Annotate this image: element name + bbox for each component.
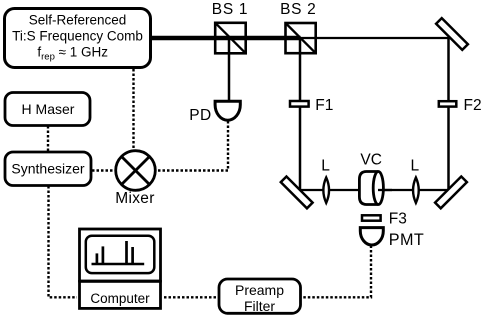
mirror M3 bottom-right: [435, 176, 467, 208]
svg-text:Mixer: Mixer: [115, 190, 154, 207]
computer monitor: [80, 229, 161, 281]
beam splitter BS1: [215, 23, 246, 54]
vapor cell VC body: [359, 172, 378, 205]
photomultiplier PMT: [360, 228, 383, 245]
wire: beam from BS1 down to PD: [228, 38, 231, 102]
wire: thick beam from comb to BS2 center: [150, 36, 301, 41]
wire: beam through VC window: [378, 189, 392, 191]
dotted: comb to mixer: [132, 69, 134, 150]
svg-text:Self-Referenced: Self-Referenced: [29, 13, 127, 28]
dotted: synthesizer to computer: [49, 186, 78, 297]
box: Preamp Filter: [219, 279, 301, 314]
mixer circle with X: [116, 151, 156, 191]
svg-text:BS 1: BS 1: [212, 1, 248, 18]
svg-text:F3: F3: [389, 210, 407, 227]
wire: horizontal beam VC to M3: [378, 189, 451, 191]
lens L right: [413, 178, 419, 203]
dotted: synthesizer to mixer: [92, 169, 115, 171]
wire: beam from BS2 down through F1 to mirror M2: [299, 38, 302, 193]
spectrum peak 2: [102, 246, 105, 264]
dotted: computer to preamp filter: [164, 296, 217, 298]
svg-text:Filter: Filter: [244, 298, 275, 314]
dotted: H maser to synthesizer: [47, 126, 49, 151]
wire: beam from top-right mirror down through F2 to mirror M3: [447, 38, 450, 195]
beam splitter BS2: [286, 23, 316, 53]
svg-text:L: L: [410, 158, 419, 175]
svg-text:L: L: [321, 158, 330, 175]
mirror M2 bottom-left: [281, 176, 313, 208]
filter F3: [362, 215, 381, 220]
vapor cell VC right window: [373, 172, 383, 205]
box: H Maser: [5, 93, 90, 126]
photodetector PD: [215, 101, 240, 120]
svg-text:Ti:S Frequency Comb: Ti:S Frequency Comb: [12, 29, 143, 44]
svg-text:PMT: PMT: [389, 231, 424, 249]
svg-text:Preamp: Preamp: [235, 282, 284, 298]
wire: thin beam BS2 to top-right mirror: [301, 37, 453, 39]
spectrum peak 3: [125, 241, 128, 264]
box: Self-Referenced Ti:S Frequency Comb: [5, 9, 151, 68]
mirror M1 top-right: [436, 18, 468, 50]
svg-text:Synthesizer: Synthesizer: [11, 161, 84, 177]
dotted: PD to mixer: [156, 121, 228, 171]
svg-text:BS 2: BS 2: [280, 1, 316, 18]
svg-text:F1: F1: [315, 97, 333, 114]
dotted: PMT to preamp filter: [302, 246, 371, 298]
filter F2: [439, 101, 457, 106]
svg-text:H Maser: H Maser: [22, 101, 75, 117]
svg-text:F2: F2: [464, 97, 482, 114]
wire: horizontal beam M2 to VC: [297, 189, 365, 191]
svg-text:PD: PD: [189, 107, 212, 124]
svg-text:Computer: Computer: [90, 291, 150, 306]
spectrum peak 4: [131, 247, 134, 264]
filter F1: [290, 101, 309, 107]
box: Computer label: [80, 281, 161, 308]
spectrum peak 1: [96, 253, 99, 264]
spectrum trace baseline: [92, 263, 145, 266]
box: Synthesizer: [5, 152, 91, 186]
lens L left: [323, 178, 329, 203]
svg-text:VC: VC: [360, 151, 382, 168]
